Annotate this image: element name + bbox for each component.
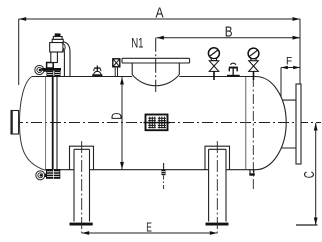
safety valve discharge pipe	[63, 42, 70, 77]
bottom drain flange block	[46, 169, 60, 179]
dimension B arrows	[156, 36, 164, 40]
manhole neck	[132, 63, 179, 75]
safety valve stem	[51, 52, 58, 63]
svg-text:D: D	[109, 113, 125, 120]
safety valve neck	[47, 63, 54, 69]
safety valve mounting flange	[42, 68, 62, 71]
shell bottom line	[45, 169, 256, 171]
right nozzle flange	[296, 84, 301, 164]
safety valve body	[50, 43, 63, 53]
bottom gauge cock circle	[36, 171, 45, 180]
vessel horizontal centerline	[12, 122, 321, 124]
dimension E arrows	[82, 231, 90, 235]
dimension A line	[19, 18, 300, 20]
dimension B line	[156, 37, 300, 39]
right weld seam	[245, 77, 247, 170]
svg-text:C: C	[302, 171, 318, 178]
dimension C bottom reference line	[296, 224, 318, 226]
svg-text:A: A	[156, 6, 164, 22]
right leg base plate	[206, 223, 229, 226]
bottom center drain fitting	[163, 163, 165, 170]
manhole centerline	[155, 38, 157, 92]
right support leg outer saddle	[205, 146, 230, 170]
left support leg tube	[74, 149, 90, 221]
right support leg tube	[209, 149, 226, 221]
dimension F arrows	[281, 66, 288, 69]
svg-text:N1: N1	[131, 35, 143, 50]
left nozzle flange	[11, 111, 19, 135]
bottom drain fitting	[250, 170, 254, 174]
manhole N1 cover plate	[122, 58, 190, 63]
dimension A left extension	[18, 19, 20, 85]
right nozzle neck	[282, 100, 297, 148]
dimension A right extension (shared with B)	[299, 19, 301, 84]
safety valve spring housing	[52, 39, 63, 42]
left leg centerline	[81, 141, 83, 233]
dimension C line	[315, 123, 317, 225]
left support leg outer saddle	[70, 146, 94, 170]
vent valve between gauges	[227, 75, 240, 77]
right leg centerline	[216, 141, 218, 233]
left leg base plate	[70, 223, 93, 226]
level gauge standpipes	[52, 76, 54, 170]
dome vent valve on shell top	[92, 74, 102, 76]
svg-text:B: B	[225, 25, 233, 41]
level instrument box with X	[113, 59, 120, 67]
left head	[20, 77, 46, 171]
svg-text:F: F	[286, 55, 293, 67]
dimension E line	[82, 232, 218, 234]
pressure gauge PG2	[248, 48, 259, 59]
dimension D line	[121, 77, 123, 170]
manhole-shell intersection arc	[132, 75, 179, 86]
left weld seam	[45, 77, 47, 170]
dimension C arrows	[314, 123, 318, 131]
gauge2/drain common centerline	[252, 77, 254, 190]
nameplate	[146, 115, 168, 131]
dimension D arrows	[120, 77, 124, 85]
pressure gauge PG1	[208, 48, 219, 59]
centerline across nameplate	[144, 122, 171, 124]
dimension F extension	[280, 68, 282, 98]
dimension F line	[281, 67, 300, 69]
right head	[256, 77, 286, 170]
dimension A arrows	[19, 17, 27, 21]
svg-text:E: E	[146, 220, 152, 234]
shell top line	[32, 76, 256, 78]
top gauge cock circle	[35, 65, 44, 74]
